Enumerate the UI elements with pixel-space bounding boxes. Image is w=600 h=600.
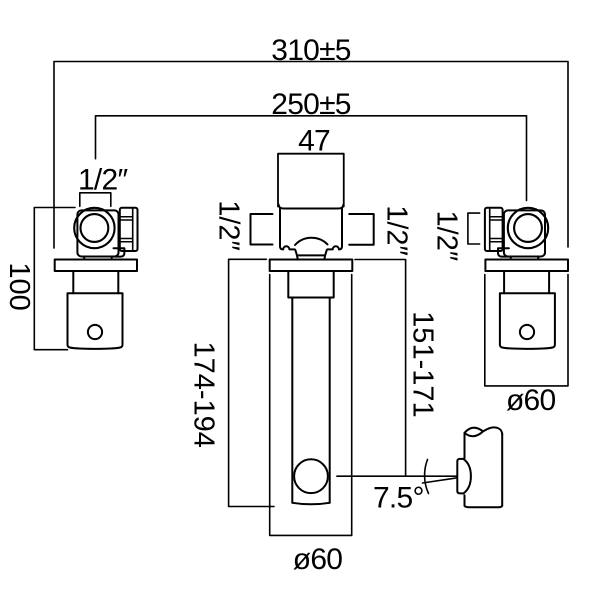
left handle <box>68 293 123 349</box>
left valve 1/2 inch bracket <box>80 193 111 207</box>
svg-text:ø60: ø60 <box>506 384 556 417</box>
left valve cap <box>120 208 138 251</box>
dimension 250±5 line <box>96 116 527 201</box>
left flange <box>55 260 137 272</box>
left lower stem <box>73 271 118 293</box>
svg-text:1/2″: 1/2″ <box>431 211 463 262</box>
svg-text:174-194: 174-194 <box>188 341 220 447</box>
dimension 7.5 deg sloped line <box>423 478 458 483</box>
right valve outer circle <box>508 208 548 248</box>
center tee dome arc <box>295 238 328 245</box>
detail cylinder break line top (lens + hump) <box>465 427 503 436</box>
right valve cap <box>485 208 503 251</box>
svg-text:1/2″: 1/2″ <box>213 200 245 251</box>
center tee body sides <box>280 209 342 250</box>
dimension 7.5 deg arc <box>425 460 429 494</box>
center right pipe <box>349 214 374 245</box>
dimension 151-171 bracket <box>355 260 406 477</box>
detail cylinder left edge <box>464 433 466 506</box>
center spout circle <box>294 459 328 493</box>
center neck <box>297 255 325 259</box>
svg-text:47: 47 <box>298 125 330 158</box>
dimension 310±5 line <box>54 62 568 249</box>
left valve outer circle <box>74 208 114 248</box>
svg-text:250±5: 250±5 <box>271 88 351 121</box>
dimension o60 center box <box>270 275 352 536</box>
right valve notch <box>498 248 509 256</box>
center spout tube <box>292 298 329 503</box>
svg-text:100: 100 <box>3 262 35 310</box>
center flange <box>270 260 353 272</box>
svg-text:1/2″: 1/2″ <box>78 163 128 196</box>
svg-text:ø60: ø60 <box>293 543 343 576</box>
left handle circle <box>88 325 102 339</box>
right valve stem <box>511 257 539 260</box>
left valve stem <box>84 257 112 260</box>
right valve 1/2 inch bracket <box>468 213 480 244</box>
svg-text:310±5: 310±5 <box>271 34 351 67</box>
detail aerator bump face <box>457 459 463 494</box>
svg-text:151-171: 151-171 <box>407 311 439 417</box>
left valve cap bands <box>120 217 133 242</box>
detail aerator bump dome <box>463 459 471 494</box>
right handle circle <box>520 325 534 339</box>
detail cylinder bottom <box>465 506 503 508</box>
right valve inner circle <box>514 214 542 242</box>
svg-text:1/2″: 1/2″ <box>381 205 413 256</box>
left valve cap divider <box>132 208 134 251</box>
detail cylinder right edge <box>501 434 503 506</box>
center left pipe <box>251 214 273 245</box>
dimension 7.5 deg horizontal line <box>337 475 457 477</box>
center 47 box <box>278 154 344 207</box>
center tee bottom edge with bumps <box>283 246 339 255</box>
right flange <box>485 260 568 272</box>
left valve notch <box>114 248 125 256</box>
left valve body <box>77 210 118 256</box>
center collar <box>288 271 333 298</box>
svg-text:7.5°: 7.5° <box>373 482 424 515</box>
right valve body <box>504 210 545 256</box>
left valve inner circle <box>81 214 109 242</box>
right valve cap bands <box>490 217 503 242</box>
center tee top edge <box>279 205 344 209</box>
dimension o60 right box <box>485 275 568 386</box>
right handle <box>500 293 555 349</box>
right valve cap divider <box>489 208 491 251</box>
dimension 174-194 bracket <box>229 259 274 506</box>
right lower stem <box>504 271 549 293</box>
dimension 100 bracket <box>34 208 75 350</box>
center spout bottom <box>292 503 329 505</box>
